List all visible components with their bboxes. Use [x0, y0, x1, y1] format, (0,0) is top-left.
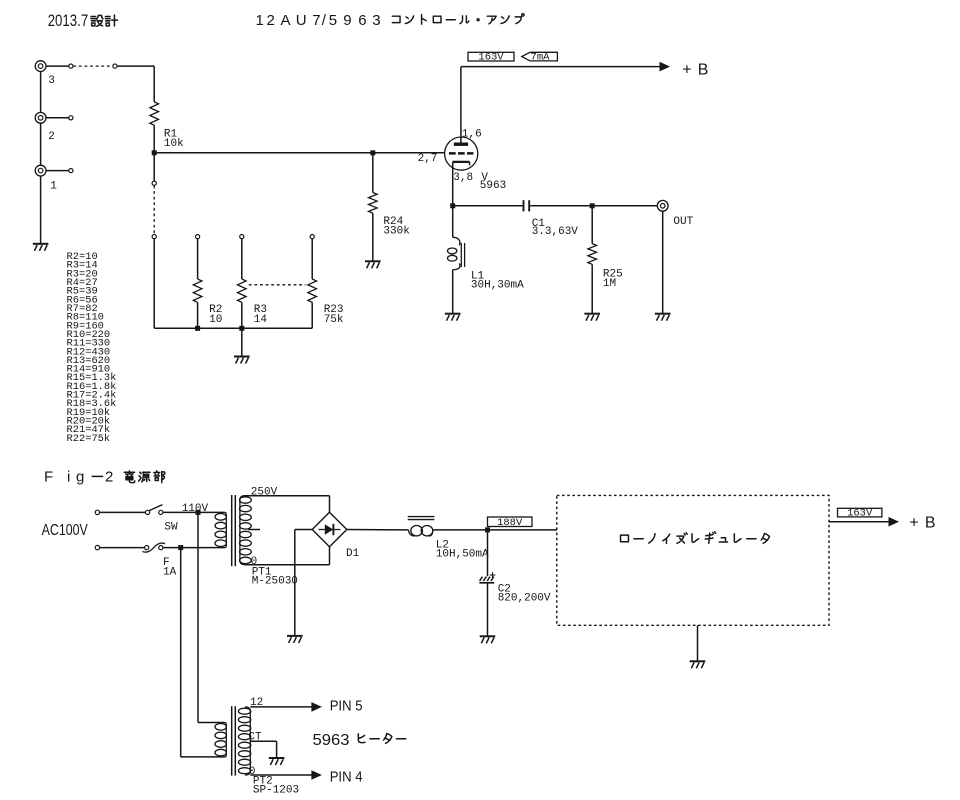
- svg-text:PIN 5: PIN 5: [330, 698, 363, 715]
- svg-text:SP-1203: SP-1203: [253, 785, 299, 797]
- svg-text:7mA: 7mA: [531, 52, 551, 64]
- svg-text:1A: 1A: [163, 566, 177, 578]
- svg-text:2: 2: [267, 12, 275, 29]
- svg-text:OUT: OUT: [673, 216, 693, 228]
- svg-text:1M: 1M: [603, 278, 616, 290]
- svg-text:5963: 5963: [480, 180, 506, 192]
- svg-text:30H,30mA: 30H,30mA: [471, 280, 524, 292]
- svg-text:250V: 250V: [251, 486, 278, 498]
- svg-text:D1: D1: [346, 548, 360, 560]
- svg-text:9: 9: [343, 12, 351, 29]
- svg-text:75k: 75k: [324, 314, 344, 326]
- svg-text:+: +: [909, 514, 918, 531]
- svg-text:1: 1: [256, 12, 264, 29]
- svg-text:2,7: 2,7: [418, 153, 438, 165]
- svg-text:3.3,63V: 3.3,63V: [532, 226, 579, 238]
- svg-text:5: 5: [329, 12, 337, 29]
- svg-text:163V: 163V: [478, 52, 504, 64]
- svg-text:6: 6: [358, 12, 366, 29]
- svg-text:820,200V: 820,200V: [498, 593, 551, 605]
- svg-text:U: U: [296, 12, 307, 29]
- svg-text:M-25030: M-25030: [252, 575, 298, 587]
- svg-text:7: 7: [312, 12, 320, 29]
- svg-text:PIN 4: PIN 4: [330, 768, 363, 785]
- svg-text:3: 3: [372, 12, 380, 29]
- svg-text:SW: SW: [164, 522, 178, 534]
- svg-text:5963: 5963: [313, 732, 350, 749]
- svg-text:330k: 330k: [383, 226, 410, 238]
- svg-text:3,8: 3,8: [453, 172, 473, 184]
- svg-text:2: 2: [105, 469, 113, 486]
- svg-text:A: A: [281, 12, 291, 29]
- svg-text:14: 14: [254, 314, 268, 326]
- svg-text:10H,50mA: 10H,50mA: [436, 549, 489, 561]
- svg-text:2: 2: [48, 131, 55, 143]
- svg-text:163V: 163V: [847, 508, 873, 520]
- svg-text:AC100V: AC100V: [42, 522, 88, 539]
- svg-text:B: B: [698, 62, 709, 79]
- svg-text:2013.7: 2013.7: [48, 11, 88, 30]
- svg-text:g: g: [76, 469, 84, 486]
- svg-text:10: 10: [209, 314, 222, 326]
- svg-text:R22=75k: R22=75k: [67, 433, 111, 445]
- svg-text:1: 1: [50, 181, 57, 193]
- svg-text:188V: 188V: [497, 517, 523, 529]
- svg-text:+: +: [682, 62, 691, 79]
- svg-text:110V: 110V: [182, 503, 209, 515]
- svg-text:/: /: [322, 12, 327, 29]
- svg-text:10k: 10k: [164, 138, 184, 150]
- svg-text:3: 3: [48, 75, 55, 87]
- svg-text:F: F: [44, 469, 53, 486]
- svg-text:i: i: [67, 469, 70, 486]
- svg-text:B: B: [925, 514, 936, 531]
- svg-text:1,6: 1,6: [462, 128, 482, 140]
